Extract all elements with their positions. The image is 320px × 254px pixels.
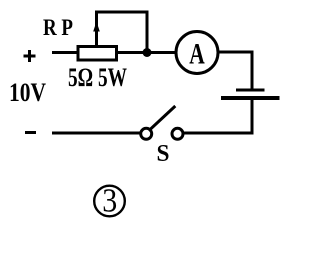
- rheostat R_P body: [78, 47, 117, 61]
- rheostat wiper arrowhead: [93, 22, 100, 32]
- wire from - terminal to switch: [52, 132, 140, 135]
- battery short plate: [236, 89, 265, 92]
- node + terminal (plus sign): [24, 50, 36, 62]
- battery long plate: [221, 96, 280, 100]
- wire from battery down and left to switch: [184, 99, 252, 133]
- svg-text:3: 3: [102, 183, 117, 220]
- svg-text:S: S: [157, 141, 170, 167]
- wire from rheostat to ammeter with junction: [116, 51, 176, 54]
- switch S right contact: [172, 128, 183, 139]
- switch S left contact: [141, 128, 152, 139]
- node - terminal (minus sign): [25, 131, 36, 134]
- svg-text:5Ω 5W: 5Ω 5W: [68, 63, 127, 92]
- ammeter A: [176, 32, 218, 74]
- svg-text:R P: R P: [43, 15, 73, 40]
- switch S lever: [150, 106, 176, 130]
- junction node dot: [143, 48, 152, 57]
- svg-text:A: A: [189, 37, 205, 70]
- svg-text:10V: 10V: [9, 78, 46, 107]
- wire from + terminal to rheostat: [52, 51, 78, 54]
- wire from ammeter to battery top: [218, 52, 252, 89]
- figure number 3 circle: [94, 186, 125, 217]
- rheostat wiper wire up and over to junction: [97, 12, 148, 50]
